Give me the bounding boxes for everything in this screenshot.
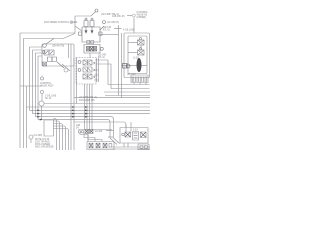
svg-text:(12-345 67): (12-345 67)	[107, 22, 119, 24]
svg-text:12-345: 12-345	[95, 131, 103, 133]
svg-text:(1B-45 678): (1B-45 678)	[52, 46, 64, 48]
svg-text:No 12: No 12	[45, 98, 52, 100]
svg-text:1-23: 1-23	[133, 130, 138, 132]
svg-text:(12-345): (12-345)	[34, 135, 43, 137]
svg-text:34: 34	[76, 127, 79, 129]
svg-text:4 OIL LINE: 4 OIL LINE	[123, 30, 135, 32]
svg-text:(12-345): (12-345)	[127, 74, 136, 76]
svg-text:VALVE ASSY: VALVE ASSY	[40, 85, 54, 88]
svg-text:(123-4567 89L-0): (123-4567 89L-0)	[79, 97, 97, 99]
svg-text:FOR 12AB 345: FOR 12AB 345	[79, 99, 95, 102]
svg-text:67L-0): 67L-0)	[103, 30, 110, 32]
svg-text:1AB 23C 45: 1AB 23C 45	[112, 15, 125, 18]
svg-text:AND 2-REVERSE: AND 2-REVERSE	[35, 146, 54, 149]
svg-text:67L-0): 67L-0)	[98, 57, 105, 59]
svg-text:(UPPER): (UPPER)	[137, 17, 147, 19]
svg-text:(1-23): (1-23)	[133, 58, 139, 60]
